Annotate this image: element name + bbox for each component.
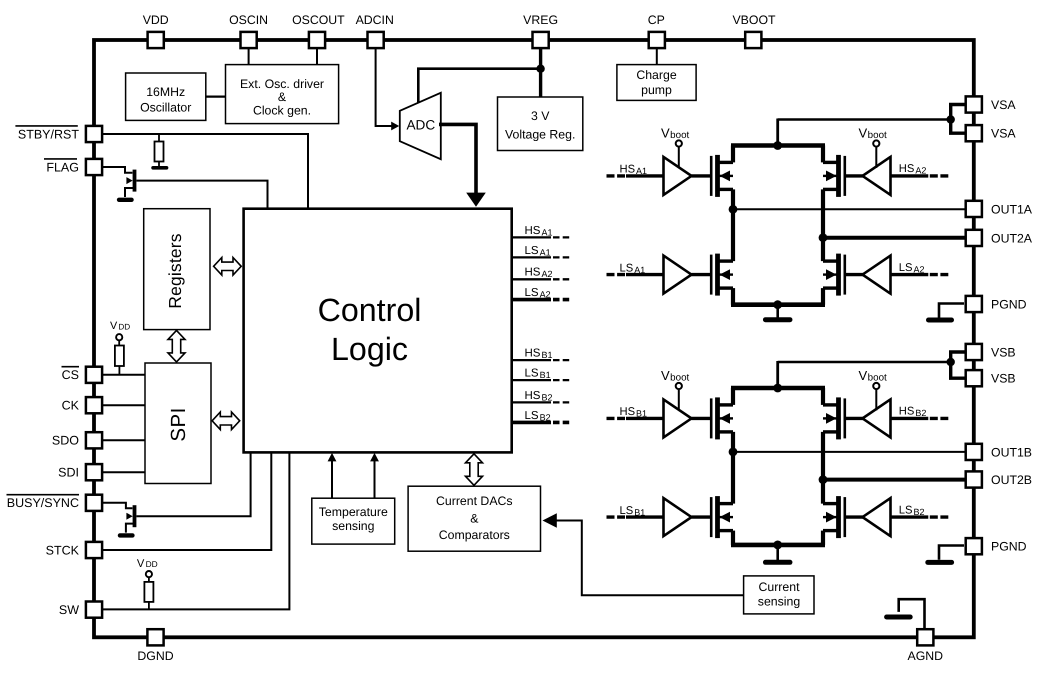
- svg-text:OUT2B: OUT2B: [991, 473, 1032, 487]
- gate driver HS B1: [626, 417, 664, 420]
- net Vboot HS B1: [676, 383, 682, 389]
- svg-text:SDO: SDO: [52, 434, 79, 448]
- wire control output HS B1: [512, 359, 551, 361]
- ground bridge A: [776, 305, 779, 318]
- pin PGND: [966, 296, 982, 312]
- wire control output LS B1: [512, 379, 551, 381]
- svg-text:Clock gen.: Clock gen.: [253, 103, 311, 117]
- svg-text:Voltage Reg.: Voltage Reg.: [505, 128, 575, 142]
- svg-text:LSA2: LSA2: [525, 287, 551, 300]
- pin SW: [86, 602, 102, 618]
- wire OSCOUT to clock block: [316, 48, 318, 65]
- pin SDI: [86, 464, 102, 480]
- pin PGND: [966, 538, 982, 554]
- wire SDO to SPI: [102, 439, 145, 441]
- svg-text:OUT1B: OUT1B: [991, 445, 1032, 459]
- wire VREG supply to ADC: [418, 69, 540, 103]
- pin VREG: [533, 32, 549, 48]
- pull-up resistor on STBY/RST: [158, 134, 160, 142]
- svg-text:SW: SW: [59, 603, 79, 617]
- gate driver LS B1: [626, 515, 664, 518]
- net Vboot HS A2: [873, 140, 879, 146]
- svg-text:Comparators: Comparators: [439, 528, 510, 542]
- svg-text:ADC: ADC: [406, 118, 435, 133]
- svg-text:CP: CP: [648, 13, 665, 27]
- power MOSFET HS A1: [715, 155, 720, 197]
- pin BUSY/SYNC: [86, 495, 102, 511]
- wire control output LS A1: [512, 256, 551, 258]
- svg-text:sensing: sensing: [332, 519, 375, 533]
- svg-text:3 V: 3 V: [531, 109, 550, 123]
- open-drain transistor Q2 (BUSY/SYNC): [133, 505, 137, 527]
- bus arrow Registers-SPI: [168, 330, 185, 362]
- svg-text:HSA1: HSA1: [525, 225, 553, 238]
- wire VREG to regulator: [539, 48, 542, 97]
- junction VREG node: [536, 65, 544, 73]
- pin SDO: [86, 432, 102, 448]
- block SPI: [145, 363, 211, 484]
- half-bridge A: [607, 105, 967, 320]
- wire VSA supply to bridge A: [778, 118, 951, 120]
- pin FLAG: [86, 159, 102, 175]
- pin VSB: [966, 370, 982, 386]
- svg-text:VREG: VREG: [523, 13, 558, 27]
- svg-text:BUSY/SYNC: BUSY/SYNC: [7, 496, 79, 510]
- ground bridge B: [776, 545, 779, 560]
- power MOSFET HS B2: [836, 397, 841, 439]
- wire OUT2A phase node: [821, 189, 825, 261]
- svg-text:OSCOUT: OSCOUT: [292, 13, 345, 27]
- svg-text:VSA: VSA: [991, 98, 1016, 112]
- block Current sensing: [744, 576, 814, 614]
- svg-text:LSA2: LSA2: [899, 262, 925, 275]
- wire Q2 gate from Control Logic: [137, 452, 251, 516]
- ground resistor STBY: [153, 166, 167, 170]
- wire STCK to Control Logic: [102, 452, 271, 550]
- svg-text:PGND: PGND: [991, 540, 1027, 554]
- pin CP: [649, 32, 665, 48]
- wire control output LS B2: [512, 421, 551, 425]
- svg-text:VDD: VDD: [110, 320, 130, 332]
- power MOSFET HS B1: [715, 397, 720, 439]
- svg-text:&: &: [470, 511, 479, 525]
- bus arrow Registers-Control Logic: [214, 258, 242, 276]
- svg-text:HSA2: HSA2: [525, 267, 553, 280]
- wire oscillator to clock gen: [206, 95, 226, 97]
- wire OUT1A phase node: [731, 189, 735, 261]
- svg-text:AGND: AGND: [908, 649, 944, 663]
- svg-text:ADCIN: ADCIN: [356, 13, 394, 27]
- junction VSB node: [947, 358, 955, 366]
- svg-text:LSB1: LSB1: [620, 505, 646, 518]
- wire control output HS A1: [512, 236, 551, 238]
- wire LS B1 input dashes: [607, 515, 626, 518]
- wire OUT1B phase node: [731, 432, 735, 504]
- wire VSB supply to bridge B: [778, 361, 951, 363]
- wire control output LS A2: [512, 298, 551, 302]
- wire temperature sensing to control logic 2: [374, 460, 376, 499]
- wire HS A2 input dashes: [930, 174, 949, 177]
- svg-text:OUT2A: OUT2A: [991, 231, 1033, 245]
- wire LS A1 input dashes: [607, 273, 626, 276]
- wire OSCIN to clock block: [248, 48, 250, 65]
- svg-text:LSA1: LSA1: [620, 262, 646, 275]
- svg-text:HSB1: HSB1: [525, 348, 553, 361]
- junction bridge B rail node: [773, 384, 782, 393]
- block Registers: [144, 209, 210, 330]
- wire LS B2 input dashes: [930, 515, 949, 518]
- wire HS A2 drain: [821, 146, 825, 163]
- ground Q1: [119, 198, 132, 202]
- gate driver LS B2: [891, 515, 929, 518]
- pin OSCIN: [241, 32, 257, 48]
- svg-text:Control: Control: [318, 292, 422, 328]
- pin DGND: [147, 629, 163, 645]
- svg-text:VBOOT: VBOOT: [732, 13, 776, 27]
- net Vboot HS A1: [676, 140, 682, 146]
- svg-text:pump: pump: [641, 83, 672, 97]
- net Vboot HS B2: [873, 383, 879, 389]
- svg-text:DGND: DGND: [137, 649, 173, 663]
- svg-text:LSB1: LSB1: [525, 368, 551, 381]
- svg-text:FLAG: FLAG: [46, 160, 79, 174]
- pin OUT2B: [966, 471, 982, 487]
- wire ADC output to Control Logic: [439, 124, 476, 194]
- svg-text:CS: CS: [62, 368, 79, 382]
- svg-text:Registers: Registers: [165, 233, 185, 308]
- svg-text:Ext. Osc. driver: Ext. Osc. driver: [240, 77, 324, 91]
- ground PGND A: [939, 304, 964, 318]
- wire FLAG to Q1: [102, 167, 132, 173]
- wire STBY/RST to Control Logic: [102, 134, 308, 209]
- ground PGND B: [939, 546, 964, 560]
- svg-text:Current DACs: Current DACs: [436, 494, 513, 508]
- junction bridge B source node: [773, 541, 782, 550]
- IC boundary: [94, 40, 974, 637]
- wire HS B1 drain: [731, 388, 735, 405]
- gate driver LS A2: [891, 273, 929, 276]
- gate driver HS B2: [891, 417, 929, 420]
- svg-text:&: &: [278, 90, 287, 104]
- block Control Logic: [244, 209, 512, 453]
- svg-text:LSB2: LSB2: [899, 504, 925, 517]
- power MOSFET HS A2: [836, 155, 841, 197]
- svg-text:HSB1: HSB1: [620, 406, 648, 419]
- svg-text:Charge: Charge: [636, 68, 676, 82]
- junction bridge A source node: [773, 300, 782, 309]
- svg-text:HSB2: HSB2: [525, 390, 553, 403]
- wire HS B1 input dashes: [607, 417, 626, 420]
- wire bridge A high-side rail: [731, 143, 825, 148]
- bus arrow SPI-Control Logic: [212, 412, 240, 430]
- wire VSB pins tie: [951, 352, 967, 362]
- wire control output HS A2: [512, 278, 551, 280]
- svg-text:VSA: VSA: [991, 127, 1016, 141]
- pull-up resistor on SW with VDD: [146, 571, 152, 577]
- pin CK: [86, 397, 102, 413]
- pin STCK: [86, 542, 102, 558]
- gate driver HS A2: [891, 174, 929, 177]
- pin CS: [86, 367, 102, 383]
- wire VSA pins tie: [951, 105, 967, 120]
- pin OUT1B: [966, 444, 982, 460]
- wire temperature sensing to control logic 1: [331, 460, 333, 499]
- svg-text:LSB2: LSB2: [525, 410, 551, 423]
- junction bridge A rail node: [773, 141, 782, 150]
- wire current sensing to Current DACs: [556, 521, 744, 596]
- svg-text:HSA1: HSA1: [620, 164, 648, 177]
- pin OSCOUT: [309, 32, 325, 48]
- pin VDD: [148, 32, 164, 48]
- wire CK to SPI: [102, 404, 145, 406]
- svg-text:VSB: VSB: [991, 372, 1016, 386]
- pin VBOOT: [745, 32, 761, 48]
- svg-text:STCK: STCK: [46, 543, 80, 557]
- svg-text:VDD: VDD: [137, 558, 158, 570]
- wire HS A1 drain: [731, 146, 735, 163]
- power MOSFET LS A1: [715, 254, 720, 296]
- svg-text:Current: Current: [758, 580, 800, 594]
- wire SW to Control Logic: [102, 452, 289, 609]
- wire CP to charge pump: [656, 48, 658, 65]
- power MOSFET LS B1: [715, 496, 720, 538]
- svg-text:Logic: Logic: [331, 331, 408, 367]
- svg-text:16MHz: 16MHz: [146, 85, 185, 99]
- wire BUSY/SYNC to Q2: [102, 503, 132, 509]
- svg-text:PGND: PGND: [991, 297, 1027, 311]
- op-amp ADC: [400, 93, 441, 159]
- gate driver LS A1: [626, 273, 664, 276]
- junction VSA node: [947, 115, 955, 123]
- wire HS B2 drain: [821, 388, 825, 405]
- pin STBY/RST: [86, 126, 102, 142]
- pin OUT2A: [966, 230, 982, 246]
- svg-text:VDD: VDD: [143, 13, 169, 27]
- wire Q1 source to ground: [125, 188, 133, 197]
- svg-text:STBY/RST: STBY/RST: [18, 127, 79, 141]
- block Current DACs and Comparators: [408, 486, 540, 551]
- svg-text:sensing: sensing: [758, 594, 801, 608]
- ground AGND: [899, 599, 925, 629]
- svg-text:VSB: VSB: [991, 345, 1016, 359]
- pin OUT1A: [966, 201, 982, 217]
- svg-text:LSA1: LSA1: [525, 245, 551, 257]
- wire HS A1 input dashes: [607, 174, 626, 177]
- svg-text:CK: CK: [62, 399, 80, 413]
- wire control output HS B2: [512, 401, 551, 403]
- gate driver HS A1: [626, 174, 664, 177]
- power MOSFET LS B2: [836, 496, 841, 538]
- block Ext. Osc. driver and Clock gen.: [226, 65, 339, 124]
- pin VSB: [966, 344, 982, 360]
- wire bridge A low-side rail: [731, 288, 735, 305]
- pin VSA: [966, 125, 982, 141]
- pin VSA: [966, 96, 982, 112]
- svg-text:HSA2: HSA2: [899, 163, 927, 176]
- svg-text:OSCIN: OSCIN: [229, 13, 268, 27]
- wire Q1 gate from Control Logic: [137, 181, 268, 209]
- wire SDI to SPI: [102, 471, 145, 473]
- wire Q2 source to ground: [126, 524, 133, 533]
- power MOSFET LS A2: [836, 254, 841, 296]
- wire ADCIN to ADC: [376, 48, 393, 126]
- open-drain transistor Q1 (FLAG): [133, 170, 137, 192]
- svg-text:Temperature: Temperature: [319, 505, 388, 519]
- wire bridge B low-side rail: [731, 531, 735, 545]
- svg-text:OUT1A: OUT1A: [991, 202, 1033, 216]
- block 3 V Voltage Reg.: [498, 97, 583, 151]
- wire LS A2 input dashes: [930, 273, 949, 276]
- wire OUT2B phase node: [821, 432, 825, 504]
- bus arrow Control Logic-Current DACs: [466, 454, 483, 486]
- wire HS B2 input dashes: [930, 417, 949, 420]
- half-bridge B: [607, 352, 967, 562]
- pin AGND: [917, 629, 933, 645]
- pin ADCIN: [368, 32, 384, 48]
- svg-text:Oscillator: Oscillator: [140, 100, 191, 114]
- svg-text:HSB2: HSB2: [899, 406, 927, 419]
- wire bridge B high-side rail: [731, 386, 825, 391]
- wire CS to SPI: [102, 374, 145, 376]
- block Charge pump: [617, 65, 696, 101]
- block Temperature sensing: [312, 498, 395, 544]
- ground Q2: [120, 533, 133, 537]
- pull-up resistor on CS with VDD: [116, 334, 122, 340]
- block 16MHz Oscillator: [126, 73, 206, 120]
- svg-text:SDI: SDI: [58, 466, 79, 480]
- svg-text:SPI: SPI: [167, 407, 190, 442]
